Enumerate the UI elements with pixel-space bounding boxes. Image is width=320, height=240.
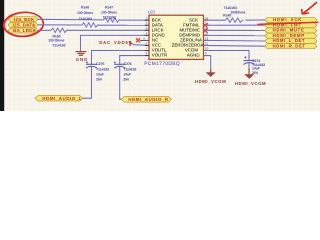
no-connect X on pin 14 [203,28,207,32]
svg-text:HDMI_SCK: HDMI_SCK [273,17,302,22]
wire AGND to HDMI_VCOM [204,56,211,70]
wire R147 to pin BCK [120,19,149,21]
svg-text:HDMI_MUTE: HDMI_MUTE [273,28,305,33]
net flag HDMI_DEMP [265,33,317,38]
svg-text:100 Ohms: 100 Ohms [101,11,117,15]
svg-text:T110193: T110193 [103,16,116,20]
net flag I2S_DATA [8,22,37,27]
wire DAC_VDD5V to VCC [133,44,149,47]
wire I2S_LRCK to R150 [38,29,50,31]
svg-text:AGND: AGND [187,53,200,58]
wire C275 to HDMI_AUDIO_L [83,67,92,98]
black screen edge strip [0,0,4,111]
svg-text:C275: C275 [96,62,104,66]
net flag HDMI_SCK [265,17,317,22]
left pin names [152,17,167,57]
red annotation ellipse [3,11,44,38]
net flag HDMI_L_DET [265,38,317,43]
label R149 [223,6,245,18]
no-connect X on NC pin [136,38,140,42]
svg-text:I2S_DATA: I2S_DATA [13,23,36,28]
svg-text:25V: 25V [123,77,130,81]
svg-text:HDMI_AUDIO_L: HDMI_AUDIO_L [42,96,82,101]
svg-text:R147: R147 [105,5,113,9]
no-connect X on pin 15 [203,23,207,27]
net flag I2S_LRCK [8,28,37,33]
wire I2S_BCK to R147 [38,18,103,21]
net flag I2S_BCK [8,17,37,22]
wire C276 to HDMI_AUDIO_R [120,67,122,99]
svg-text:R149: R149 [223,14,231,18]
svg-text:25V: 25V [96,77,103,81]
left pin stubs [140,20,149,55]
svg-text:R148: R148 [81,6,89,10]
resistor R150 zigzag [50,28,68,32]
wire VOUTL to C275 [92,51,150,65]
capacitor C275 [86,61,97,68]
svg-text:T110193: T110193 [79,17,92,21]
right pin numbers [205,16,209,55]
svg-text:HDMI_AUDIO_R: HDMI_AUDIO_R [128,97,169,102]
svg-text:100 Ohms: 100 Ohms [77,11,93,15]
svg-text:I2S_BCK: I2S_BCK [14,17,35,22]
label R150 [48,34,65,47]
svg-text:DAC_VDD5V: DAC_VDD5V [99,40,132,45]
svg-text:100 Ohms: 100 Ohms [48,39,64,43]
net flag HDMI_R_DET [265,43,317,48]
svg-text:T110193: T110193 [52,44,65,48]
resistor R147 zigzag [103,18,121,22]
label C274 [252,59,265,75]
svg-text:HDMI_VCOM: HDMI_VCOM [235,81,266,86]
svg-text:10uF: 10uF [96,72,105,76]
wire I2S_DATA to R148 [38,24,81,26]
op IC U22 body [149,15,204,59]
svg-text:VOUTR: VOUTR [152,53,167,58]
svg-text:HDMI_L_DET: HDMI_L_DET [273,38,305,43]
wire C274 to HDMI_VCOM [248,63,250,69]
svg-text:HDMI_DEMP: HDMI_DEMP [273,33,305,38]
right pin names [172,17,204,57]
wire R149 to HDMI_SCK [246,19,265,21]
label C275 [96,62,109,81]
left pin numbers [143,16,147,55]
svg-text:T114182: T114182 [96,67,109,71]
net flag HDMI_MUTE [265,28,317,33]
net flag HDMI_AUDIO_L [35,95,83,101]
red annotation strike line [258,22,319,24]
capacitor C274 [244,56,255,64]
svg-text:I2S_LRCK: I2S_LRCK [13,28,37,33]
power symbol HDMI_VCOM right [235,68,266,86]
wire VCOM to C274 [204,51,250,61]
capacitor C276 [114,61,126,68]
right pin stubs [204,20,209,55]
wire SCK to R149 [204,19,225,21]
wire R150 to pin LRCK [67,29,150,31]
svg-text:100Ohms: 100Ohms [230,11,245,15]
net flag HDMI_AUDIO_R [121,97,172,103]
svg-text:PCM1770DBQ: PCM1770DBQ [144,61,180,67]
svg-text:GND: GND [76,57,89,62]
svg-text:T114182: T114182 [123,67,136,71]
svg-text:HDMI_R_DET: HDMI_R_DET [273,43,306,48]
resistor R149 zigzag [224,18,244,22]
power symbol DAC_VDD5V [99,40,132,46]
net flag HDMI_FMT [265,22,317,27]
svg-text:T110193: T110193 [224,6,237,10]
wire FMT to HDMI_FMT [204,24,265,26]
svg-text:HDMI_VCOM: HDMI_VCOM [195,79,226,84]
label R147 [101,5,117,19]
svg-text:U22: U22 [148,9,156,14]
resistor R148 zigzag [81,23,99,27]
label R148 [77,6,93,21]
wire VOUTR to C276 [120,56,149,65]
svg-text:10uF: 10uF [123,72,132,76]
power symbol HDMI_VCOM left [195,70,226,85]
wire DEMP to HDMI_DEMP [204,34,265,36]
red annotation arrow [302,2,317,14]
wire MUTE to HDMI_MUTE [204,29,265,31]
wire ZEROL to HDMI_L_DET [204,39,265,42]
label C276 [123,62,136,81]
wire DGND to ground [81,35,150,51]
svg-text:C276: C276 [124,62,132,66]
wire ZEROR to HDMI_R_DET [204,44,265,47]
ground GND [75,52,86,56]
wire R148 to pin DATA [98,24,150,26]
